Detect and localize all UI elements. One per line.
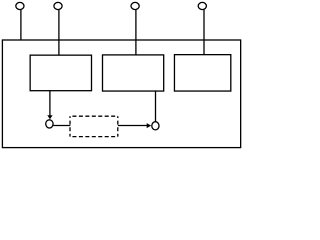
block 3 (right inner rectangle) — [174, 55, 230, 91]
port P1 (top terminal circle) — [16, 2, 24, 9]
node circle N2 — [152, 122, 159, 130]
wire P1 to enclosure top — [20, 10, 22, 41]
wire block 2 bottom down to node N2 — [155, 91, 157, 122]
wire dashed block to node N2 with arrow — [118, 125, 147, 127]
wire P3 to block 2 top — [135, 10, 137, 55]
wire P4 to block 3 top — [203, 10, 205, 55]
port P3 (top terminal circle) — [131, 2, 139, 9]
wire P2 to block 1 top — [58, 10, 60, 56]
wire block 1 bottom down to node N1 — [49, 91, 51, 116]
dashed block (optional component) — [70, 116, 118, 136]
arrowhead pointing right into node N2 — [147, 123, 152, 128]
wire node N1 to dashed block — [53, 125, 70, 127]
node circle N1 — [46, 120, 53, 128]
outer system enclosure box — [2, 40, 240, 148]
port P4 (top terminal circle) — [198, 2, 206, 9]
port P2 (top terminal circle) — [54, 2, 62, 9]
block 2 (middle inner rectangle) — [103, 55, 164, 91]
arrowhead pointing down into node N1 — [47, 115, 52, 119]
block 1 (left inner rectangle) — [30, 55, 91, 91]
